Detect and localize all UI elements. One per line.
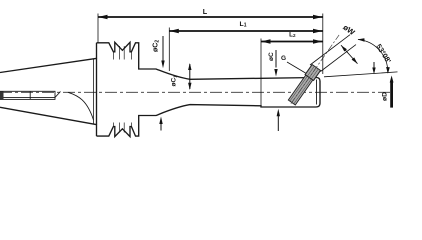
svg-text:L: L — [203, 7, 208, 16]
svg-text:øD: øD — [382, 92, 389, 101]
svg-text:øC1: øC1 — [171, 75, 178, 87]
svg-text:øW: øW — [341, 23, 357, 38]
svg-text:G: G — [281, 55, 286, 62]
svg-text:øC2: øC2 — [153, 40, 161, 52]
svg-text:øC: øC — [268, 52, 275, 61]
svg-text:L2: L2 — [289, 32, 296, 39]
svg-text:L1: L1 — [240, 21, 247, 29]
svg-text:53°08': 53°08' — [374, 42, 393, 65]
